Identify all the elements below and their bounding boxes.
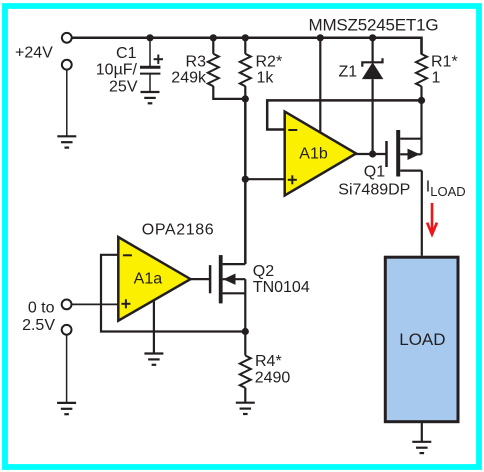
ground under +24V return — [57, 136, 76, 147]
junction node Q1 gate — [369, 150, 376, 157]
label R4 value — [255, 353, 291, 387]
svg-text:1k: 1k — [257, 70, 275, 87]
label 0 to 2.5V — [22, 299, 55, 334]
capacitor C1 — [140, 38, 163, 92]
wire Q1 source to load — [421, 171, 423, 256]
wire terminal to ground — [66, 70, 68, 136]
svg-text:2.5V: 2.5V — [22, 317, 55, 334]
svg-text:25V: 25V — [109, 79, 138, 96]
terminal 0-2.5V input — [62, 300, 72, 310]
wire input to A1a plus — [72, 303, 119, 305]
ground under load — [412, 442, 431, 453]
svg-text:R3: R3 — [186, 54, 207, 71]
label Q1 value — [338, 164, 410, 199]
junction node A1b supply — [317, 34, 324, 41]
ground under A1a — [144, 354, 163, 365]
junction node R2/R3 bottom — [242, 95, 249, 102]
svg-text:1: 1 — [432, 70, 441, 87]
wire A1b output — [356, 153, 386, 155]
resistor R3 — [208, 38, 246, 99]
wire +24V rail — [72, 38, 422, 55]
junction node C1 top — [146, 34, 153, 41]
svg-text:MMSZ5245ET1G: MMSZ5245ET1G — [309, 15, 439, 34]
svg-text:R1*: R1* — [431, 54, 458, 71]
svg-text:2490: 2490 — [255, 369, 291, 386]
svg-text:A1b: A1b — [299, 145, 328, 162]
terminal 0-2.5V return — [62, 325, 72, 335]
label Q2 value — [253, 263, 310, 296]
svg-text:Q2: Q2 — [253, 263, 274, 280]
wire A1a feedback — [101, 255, 245, 332]
svg-text:10µF/: 10µF/ — [96, 62, 138, 79]
label R1 value — [431, 54, 458, 87]
label R3 value — [171, 54, 207, 87]
op-amp A1a — [118, 237, 190, 321]
terminal +24V — [62, 33, 72, 43]
transistor Q1 — [387, 100, 422, 176]
resistor R1 — [416, 38, 427, 101]
current arrow — [427, 203, 437, 235]
svg-text:Si7489DP: Si7489DP — [338, 181, 410, 198]
svg-text:A1a: A1a — [134, 270, 163, 287]
ground under R4 — [236, 403, 255, 414]
junction node R3 top — [210, 34, 217, 41]
svg-text:R4*: R4* — [255, 353, 282, 370]
wire node to Q2 drain — [244, 99, 247, 264]
load box — [385, 257, 458, 422]
wire to A1b plus input — [245, 178, 284, 180]
svg-text:OPA2186: OPA2186 — [142, 222, 214, 239]
ground under C1 — [141, 92, 160, 103]
svg-text:ILOAD: ILOAD — [426, 179, 466, 200]
svg-text:LOAD: LOAD — [399, 330, 445, 349]
wire A1a ground pin — [153, 300, 155, 353]
wire return to ground — [66, 335, 68, 403]
junction node A1b plus tap — [242, 176, 249, 183]
svg-text:C1: C1 — [116, 45, 137, 62]
terminal +24V return — [62, 60, 72, 70]
svg-text:Z1: Z1 — [339, 64, 358, 81]
wire load to ground — [421, 422, 423, 442]
resistor R4 — [240, 332, 251, 403]
zener diode Z1 — [362, 38, 383, 154]
ground under return — [57, 403, 76, 414]
transistor Q2 — [210, 255, 245, 331]
svg-text:+24V: +24V — [15, 44, 53, 61]
svg-text:0 to: 0 to — [28, 299, 55, 316]
wire A1b feedback — [267, 100, 421, 129]
svg-text:R2*: R2* — [256, 54, 283, 71]
svg-text:TN0104: TN0104 — [253, 279, 310, 296]
junction node Q2 source / R4 — [242, 328, 249, 335]
op-amp A1b — [285, 112, 356, 196]
wire A1b supply pin — [319, 38, 321, 133]
svg-text:249k: 249k — [171, 70, 207, 87]
label R2 value — [256, 54, 283, 87]
label C1 value — [96, 45, 138, 96]
junction node R1 bottom / Q1 drain — [418, 97, 425, 104]
resistor R2 — [240, 38, 251, 99]
svg-text:Q1: Q1 — [364, 164, 385, 181]
junction node Z1 top — [369, 34, 376, 41]
wire A1a output — [191, 278, 211, 280]
junction node R2 top — [242, 34, 249, 41]
